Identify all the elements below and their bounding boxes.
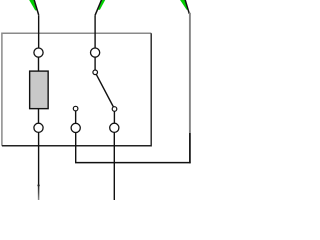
subcircuit box (gray top and left edges): [2, 33, 151, 146]
wire: green external wire top-right: [179, 0, 188, 10]
wire: green external wire top-middle: [98, 0, 106, 10]
switch S1 blade (pivot to right throw): [95, 72, 114, 109]
wire: black lead to right outer wire: [185, 0, 189, 14]
junction dot on left bottom wire: [37, 184, 39, 186]
wire: green external wire top-left: [29, 0, 37, 10]
wire: horizontal run to right outer wire: [75, 162, 191, 164]
pin 2 (switch top terminal): [91, 48, 100, 57]
resistor R1 (box style body): [30, 71, 49, 109]
wire: black lead from top edge to node B: [95, 0, 102, 15]
wire: pin4 down to horizontal run: [75, 131, 77, 163]
wire: pin1 to resistor top: [38, 56, 40, 72]
switch S1 left throw contact circle: [73, 106, 78, 111]
switch S1 right throw contact circle: [112, 107, 117, 112]
pin 1 (resistor top terminal): [34, 48, 43, 57]
wire: junction down to bottom edge (fading gray): [38, 185, 40, 200]
wire: right outer vertical (black lower segment): [189, 133, 191, 163]
wire: pin5 down through box to bottom edge: [113, 131, 115, 201]
wire: right throw to pin 5: [113, 110, 115, 124]
subcircuit box (dark right and bottom edges): [2, 33, 151, 146]
wire: vertical into pin 2: [94, 15, 96, 48]
wire: vertical into pin 1: [38, 15, 40, 48]
switch S1 pivot contact circle: [93, 70, 98, 75]
wire: pin3 down through box to junction: [38, 131, 40, 186]
wire: pin2 to switch pivot: [94, 56, 96, 71]
wire: resistor bottom to pin3: [38, 108, 40, 124]
pin 3 (resistor bottom terminal): [34, 123, 43, 132]
pin 5 (right throw bottom terminal): [110, 123, 119, 132]
wire: right outer vertical (gray upper segment): [189, 13, 191, 133]
wire: black lead from top edge to node A: [34, 0, 39, 15]
pin 4 (left throw bottom terminal): [71, 123, 80, 132]
wire: left throw to pin 4: [75, 110, 77, 124]
